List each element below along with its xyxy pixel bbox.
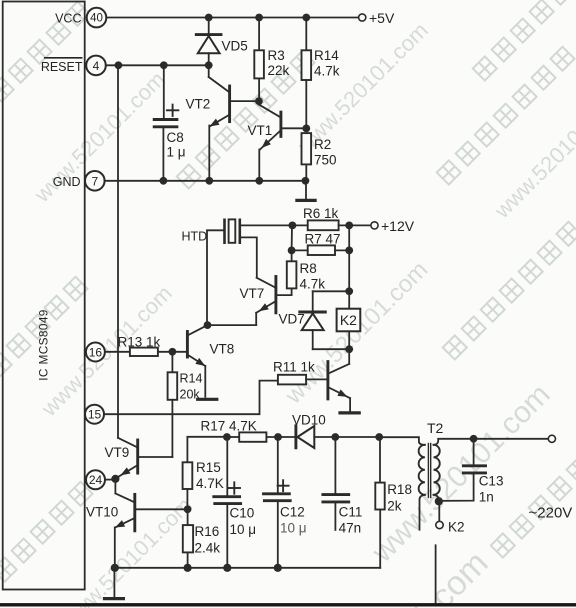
junction R7 left / R8 top (288, 247, 296, 255)
svg-text:2.4k: 2.4k (195, 541, 221, 556)
resistor R14 20k (middle) (168, 352, 178, 457)
transformer T2 primary winding (419, 445, 425, 495)
svg-text:750: 750 (314, 152, 337, 167)
junction R17 left / R15 / C10 (223, 433, 231, 441)
junction +5V rail / R14 (302, 14, 310, 22)
terminal output right (548, 435, 555, 442)
junction VD7 top wire / K2 line (345, 287, 353, 295)
resistor R16 2.4k (183, 509, 193, 568)
svg-text:R16: R16 (195, 524, 220, 539)
svg-text:20k: 20k (180, 388, 201, 402)
terminal +5V (359, 14, 366, 21)
junction rail / C10 (223, 564, 231, 572)
svg-text:4: 4 (93, 59, 100, 73)
svg-text:4.7K: 4.7K (196, 476, 224, 491)
svg-text:10 μ: 10 μ (230, 522, 257, 537)
svg-text:T2: T2 (427, 420, 444, 436)
ground symbol (bottom rail) (105, 568, 124, 599)
svg-text:+12V: +12V (381, 218, 415, 234)
wire R17 / VD10 line (227, 436, 239, 438)
svg-text:C12: C12 (280, 504, 305, 519)
wire R14 bottom to VT9 base (139, 456, 172, 458)
svg-text:16: 16 (89, 345, 103, 359)
svg-text:+5V: +5V (369, 10, 395, 26)
svg-text:RESET: RESET (41, 60, 83, 74)
pin 15 (85, 405, 104, 424)
pin 16 (86, 343, 105, 362)
junction VT1 base / R14 / R2 (302, 124, 310, 132)
transistor VT1 (259, 101, 306, 181)
svg-text:VD10: VD10 (292, 413, 326, 428)
terminal +12V (371, 222, 378, 229)
svg-text:R14: R14 (314, 48, 339, 63)
svg-text:R11 1k: R11 1k (273, 360, 315, 375)
svg-text:47n: 47n (339, 521, 362, 536)
resistor R13 1k (130, 348, 158, 356)
pin 40 VCC (87, 8, 107, 28)
junction R7 right / +12V line (345, 247, 353, 255)
IC U1 MCS8049 body (3, 2, 85, 590)
wire T2 secondary top to output terminal (434, 439, 549, 445)
svg-text:R3: R3 (268, 48, 285, 63)
switch K2 blade wire (435, 545, 437, 602)
resistor R11 1k (278, 375, 327, 385)
resistor R3 22k (254, 18, 264, 102)
svg-text:R6 1k: R6 1k (303, 206, 339, 221)
svg-text:4.7k: 4.7k (314, 63, 340, 78)
svg-text:VT1: VT1 (248, 123, 273, 138)
svg-text:C11: C11 (339, 505, 363, 520)
buzzer HTD (225, 219, 240, 242)
resistor R18 2k (375, 437, 384, 568)
svg-text:VD5: VD5 (222, 39, 248, 54)
photo scan black strip bottom edge (0, 603, 576, 606)
junction pin24 node (111, 475, 119, 483)
junction VT8 collector node (204, 321, 212, 329)
diode VD5 (196, 18, 221, 66)
svg-text:VCC: VCC (55, 11, 81, 25)
resistor R6 1k (292, 220, 371, 230)
junction GND / VT1 emitter (255, 177, 263, 185)
junction VD10 line / C11 (331, 433, 339, 441)
junction secondary top / C13 (470, 435, 478, 443)
resistor R14 4.7k (top) (302, 18, 312, 129)
ground symbol (VT11 emitter) (340, 411, 359, 414)
svg-text:4.7k: 4.7k (300, 276, 326, 291)
transistor VT11 (relay driver) (328, 349, 350, 411)
resistor R8 4.7k (287, 250, 297, 295)
wire GND rail (105, 180, 306, 182)
svg-text:R18: R18 (387, 482, 412, 497)
svg-text:R7 47: R7 47 (305, 232, 341, 247)
svg-text:C8: C8 (167, 130, 184, 145)
svg-text:K2: K2 (340, 312, 357, 328)
junction RESET / C8 (160, 61, 168, 69)
svg-text:www.520101.com: www.520101.com (365, 378, 556, 569)
svg-text:7: 7 (91, 174, 98, 188)
junction R17 right / C12 / VD10 anode (274, 433, 282, 441)
svg-text:VT7: VT7 (240, 286, 265, 301)
wire pin16 to VT8 base (105, 351, 187, 353)
wire VD7 anode to K2 bottom node (313, 348, 350, 350)
resistor R2 750 (302, 133, 312, 181)
capacitor C8 1u (154, 65, 178, 181)
svg-text:15: 15 (88, 408, 102, 422)
wire R6 left node down to R7 left node (291, 225, 293, 250)
svg-text:1 μ: 1 μ (167, 145, 186, 160)
wire VT9 collector line to RESET (117, 65, 119, 438)
resistor R17 4.7K (239, 432, 266, 441)
capacitor C11 47n (323, 437, 349, 530)
transistor VT8 (187, 325, 207, 397)
wire R8 bottom to VT7 base (277, 294, 291, 296)
svg-text:HTD: HTD (182, 230, 208, 244)
svg-text:R13 1k: R13 1k (118, 334, 161, 349)
junction VT10 base / R15 / R16 (184, 505, 192, 513)
relay K2 (337, 309, 361, 350)
transistor VT10 (115, 479, 188, 568)
wire bottom ground rail (114, 567, 380, 569)
wire VT7 emitter to VT8 collector node (207, 324, 256, 326)
transistor VT9 (116, 438, 138, 479)
junction GND / C8 (160, 177, 168, 185)
wire VD10 line to transformer T2 primary (379, 437, 424, 445)
svg-text:VT9: VT9 (105, 445, 130, 460)
wire VD7 cathode to K2 line (313, 290, 350, 292)
junction R6 left / HTD (289, 222, 297, 230)
svg-text:40: 40 (90, 13, 103, 25)
svg-text:R15: R15 (196, 460, 221, 475)
wire R17 right to VD10 (266, 436, 296, 438)
junction R6 right / +12V (345, 222, 353, 230)
junction GND / R2 / ground stub (302, 177, 310, 185)
resistor R15 4.7K (183, 437, 227, 510)
svg-text:22k: 22k (268, 63, 290, 78)
svg-text:24: 24 (89, 473, 103, 487)
wire HTD right plate to VT7 collector (240, 237, 257, 277)
junction rail / R16 (184, 564, 192, 572)
resistor R7 47 (292, 245, 350, 255)
junction +5V rail / R3 (255, 14, 263, 22)
svg-text:VT2: VT2 (186, 97, 211, 112)
transformer T2 secondary winding (434, 445, 440, 495)
svg-text:VT8: VT8 (210, 341, 235, 356)
svg-text:2k: 2k (387, 499, 402, 514)
junction rail / VT10 emitter / ground (111, 564, 119, 572)
diode VD7 (300, 291, 326, 349)
junction T2 secondary bottom / C13 / K2 switch (435, 497, 443, 505)
wire T2 primary bottom lead (420, 495, 425, 530)
svg-text:C10: C10 (230, 505, 255, 520)
junction rail / C12 (274, 564, 282, 572)
svg-text:www.520101.com: www.520101.com (292, 17, 433, 158)
svg-text:GND: GND (53, 175, 81, 189)
transistor VT7 (256, 277, 276, 326)
pin 4 RESET (86, 56, 106, 76)
junction RESET / VT9 collector line (115, 61, 123, 69)
junction VD10 line / R18 / T2 (375, 433, 383, 441)
wire pin24 to VT9 emitter / VT10 collector (105, 479, 115, 481)
transformer T2 core (427, 444, 429, 498)
wire +12V vertical to relay K2 (348, 225, 350, 308)
svg-text:R2: R2 (314, 137, 331, 152)
transistor VT2 (209, 65, 259, 181)
svg-text:10 μ: 10 μ (280, 521, 307, 536)
junction GND / VT2 emitter (205, 177, 213, 185)
junction VD7 anode / K2 bottom / VT11 collector (345, 345, 353, 353)
junction +5V rail / VD5 (205, 14, 213, 22)
capacitor C10 10u (214, 437, 241, 568)
wire +5V rail (106, 17, 358, 19)
svg-text:IC MCS8049: IC MCS8049 (37, 309, 51, 381)
diode VD10 (296, 426, 379, 448)
wire pin15 to R11 (104, 381, 278, 415)
svg-text:VT10: VT10 (86, 505, 118, 520)
pin 7 GND (85, 171, 105, 191)
svg-text:~220V: ~220V (529, 504, 573, 521)
junction R13 / R14 20k top (169, 348, 177, 356)
svg-text:R17 4.7K: R17 4.7K (201, 418, 257, 433)
svg-text:K2: K2 (448, 520, 465, 535)
pin 24 (86, 470, 105, 489)
svg-text:VD7: VD7 (279, 312, 305, 327)
svg-text:R8: R8 (300, 261, 317, 276)
svg-text:C13: C13 (479, 474, 504, 489)
capacitor C12 10u (264, 437, 291, 568)
wire RESET net (106, 64, 209, 66)
wire HTD right plate to R6 left node (240, 224, 293, 226)
junction RESET / VD5 anode (205, 61, 213, 69)
switch K2 contact (438, 501, 440, 521)
ground symbol (VT8 emitter) (198, 398, 217, 401)
svg-text:R14: R14 (180, 372, 203, 386)
junction VT2 base / R3 / VT1 collector (255, 97, 263, 105)
wire HTD left plate to VT8 collector node (207, 230, 225, 325)
ground symbol (GND rail) (297, 181, 315, 201)
wire secondary bottom lead (434, 495, 439, 502)
capacitor C13 1n (439, 439, 486, 501)
svg-text:www.520101.com: www.520101.com (489, 82, 576, 223)
svg-text:1n: 1n (479, 490, 494, 505)
